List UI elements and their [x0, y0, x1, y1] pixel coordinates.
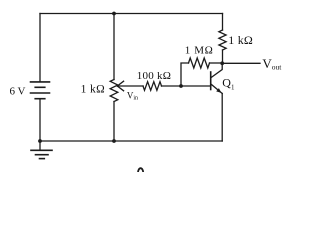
resistor 1 MOhm (feedback) — [189, 58, 210, 68]
wire bottom rail — [40, 140, 222, 142]
node junction (top of potentiometer) — [112, 12, 116, 16]
wire left rail (top to battery) — [39, 14, 41, 82]
ground — [31, 150, 52, 158]
wire potentiometer to bottom rail — [113, 102, 115, 142]
wire 1 kOhm to collector node — [222, 50, 224, 63]
svg-text:1 kΩ: 1 kΩ — [81, 84, 106, 96]
node junction (bottom of potentiometer) — [112, 139, 116, 143]
svg-text:Vout: Vout — [262, 56, 282, 72]
potentiometer 1 kOhm body — [110, 80, 118, 102]
node junction (left-bottom) — [38, 139, 42, 143]
wire top rail down to 1 kOhm collector resistor — [222, 14, 224, 31]
wire collector node to output — [222, 62, 260, 64]
svg-text:1 MΩ: 1 MΩ — [185, 45, 214, 57]
wire stub up from base node to feedback resistor — [181, 63, 189, 86]
wire 1 MOhm to collector node — [210, 62, 223, 64]
collector lead — [211, 63, 222, 77]
svg-text:Q1: Q1 — [222, 76, 235, 92]
wire top rail — [40, 13, 223, 15]
wire top rail to potentiometer — [113, 14, 115, 80]
svg-text:100 kΩ: 100 kΩ — [137, 70, 171, 82]
caption fragment (top of a glyph cut off at bottom edge) — [138, 168, 143, 173]
svg-text:Vin: Vin — [127, 90, 138, 101]
svg-text:1 kΩ: 1 kΩ — [228, 33, 253, 47]
emitter arrowhead — [216, 88, 221, 93]
wiper arrow of potentiometer — [117, 81, 143, 91]
resistor 100 kOhm — [143, 82, 162, 91]
node junction (base node) — [179, 84, 183, 88]
wire resistor to base node — [162, 85, 211, 87]
emitter wire down to bottom rail — [221, 94, 223, 142]
base bar — [210, 72, 212, 90]
wire battery to bottom junction — [39, 99, 41, 141]
wire junction to ground — [39, 141, 41, 150]
emitter lead — [211, 84, 222, 93]
resistor 1 kOhm (collector load) — [219, 30, 226, 50]
battery B1 (6 V source) — [31, 82, 50, 99]
node junction (collector node) — [220, 61, 224, 65]
transistor Q1 — [211, 63, 223, 141]
svg-text:6 V: 6 V — [10, 86, 26, 98]
